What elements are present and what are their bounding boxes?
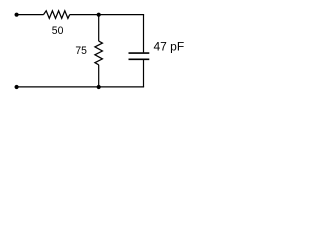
wire: top-left terminal to resistor R1 (17, 14, 44, 16)
wire: top junction to top-right corner (99, 14, 144, 16)
resistor R1 (50 ohm, horizontal zigzag) (44, 11, 70, 19)
capacitor C1 bottom plate (129, 58, 150, 60)
wire: resistor R2 to bottom junction (98, 65, 100, 87)
svg-text:47 pF: 47 pF (154, 40, 185, 54)
wire: capacitor C1 down to bottom wire (143, 60, 145, 87)
resistor R2 (75 ohm, vertical zigzag) (95, 41, 103, 65)
node: bottom-left input terminal (15, 85, 19, 89)
node: bottom junction (97, 85, 101, 89)
svg-text:50: 50 (52, 25, 64, 37)
svg-text:75: 75 (75, 45, 87, 57)
wire: resistor R1 to top junction (70, 14, 99, 16)
capacitor C1 top plate (129, 52, 150, 54)
wire: bottom rail (17, 86, 145, 88)
wire: top-right corner down to capacitor C1 (143, 15, 145, 53)
wire: top junction down to resistor R2 (98, 15, 100, 41)
node: top junction (97, 13, 101, 17)
node: top-left input terminal (15, 13, 19, 17)
